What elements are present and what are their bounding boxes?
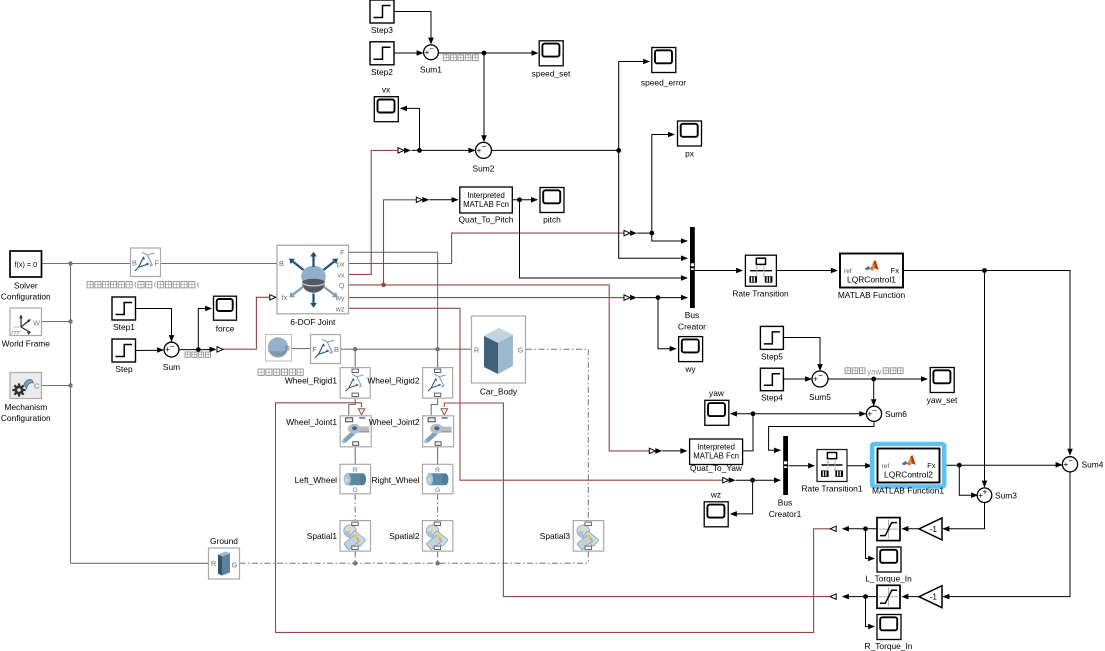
svg-text:Sum5: Sum5 (809, 392, 831, 402)
svg-text:Right_Wheel: Right_Wheel (372, 475, 420, 485)
svg-text:wz: wz (710, 490, 721, 500)
svg-text:Spatial2: Spatial2 (389, 531, 420, 541)
svg-text:Sum6: Sum6 (885, 409, 907, 419)
svg-text:−: − (170, 342, 175, 351)
svg-text:6-DOF Joint: 6-DOF Joint (290, 317, 336, 327)
svg-text:vx: vx (337, 270, 345, 279)
svg-text:Rate Transition1: Rate Transition1 (802, 484, 863, 494)
svg-text:force: force (216, 324, 235, 334)
svg-text:F: F (155, 259, 160, 268)
svg-text:−: − (1068, 457, 1073, 466)
svg-text:wy: wy (335, 294, 345, 303)
svg-text:Ground: Ground (210, 536, 238, 546)
svg-text:Spatial1: Spatial1 (307, 531, 338, 541)
svg-text:Step4: Step4 (761, 393, 783, 403)
svg-text:R: R (353, 467, 358, 474)
svg-text:px: px (337, 260, 345, 269)
svg-text:Creator1: Creator1 (769, 509, 802, 519)
svg-text:R_Torque_In: R_Torque_In (865, 641, 913, 651)
svg-text:Sum4: Sum4 (1082, 460, 1104, 470)
svg-text:−: − (429, 45, 434, 54)
svg-text:LQRControl1: LQRControl1 (847, 275, 896, 285)
svg-text:R: R (435, 467, 440, 474)
svg-text:-1: -1 (930, 593, 938, 602)
svg-text:Configuration: Configuration (1, 413, 51, 423)
svg-text:MATLAB Fcn: MATLAB Fcn (693, 452, 739, 461)
svg-text:L_Torque_In: L_Torque_In (865, 574, 912, 584)
svg-text:Q: Q (339, 281, 345, 290)
svg-text:R: R (285, 344, 290, 353)
svg-text:-1: -1 (930, 525, 938, 534)
svg-text:Solver: Solver (14, 281, 38, 291)
svg-text:Left_Wheel: Left_Wheel (295, 475, 338, 485)
svg-text:−: − (818, 371, 823, 380)
svg-text:wz: wz (335, 304, 345, 313)
svg-text:speed_error: speed_error (641, 78, 686, 88)
svg-text:Wheel_Joint1: Wheel_Joint1 (286, 417, 337, 427)
svg-text:Wheel_Rigid1: Wheel_Rigid1 (285, 376, 337, 386)
svg-text:W: W (33, 319, 41, 328)
svg-text:wy: wy (684, 364, 696, 374)
svg-text:F: F (340, 248, 345, 257)
svg-text:yaw: yaw (709, 388, 725, 398)
svg-text:fx: fx (282, 293, 288, 302)
svg-text:vx: vx (382, 85, 391, 95)
svg-text:G: G (435, 487, 440, 494)
svg-text:Step5: Step5 (761, 352, 783, 362)
svg-text:Bus: Bus (685, 310, 699, 320)
svg-text:World Frame: World Frame (2, 339, 51, 349)
svg-text:C: C (34, 382, 40, 391)
svg-text:Creator: Creator (678, 322, 706, 332)
svg-text:Interpreted: Interpreted (697, 443, 735, 452)
svg-text:px: px (685, 149, 695, 159)
svg-text:speed_set: speed_set (532, 69, 571, 79)
svg-text:−: − (482, 142, 487, 151)
svg-text:Bus: Bus (778, 498, 792, 508)
svg-text:yaw: yaw (867, 367, 881, 376)
svg-text:pitch: pitch (543, 215, 561, 225)
svg-text:F: F (312, 345, 317, 354)
svg-text:yaw_set: yaw_set (927, 395, 958, 405)
svg-text:Car_Body: Car_Body (480, 387, 518, 397)
svg-text:Wheel_Rigid2: Wheel_Rigid2 (367, 376, 419, 386)
svg-text:Wheel_Joint2: Wheel_Joint2 (369, 417, 420, 427)
svg-text:B: B (279, 259, 284, 268)
svg-text:Quat_To_Yaw: Quat_To_Yaw (690, 463, 743, 473)
svg-text:Step: Step (115, 364, 133, 374)
svg-text:Spatial3: Spatial3 (540, 531, 571, 541)
svg-text:Sum3: Sum3 (995, 491, 1017, 501)
svg-text:G: G (232, 560, 238, 569)
svg-text:Mechanism: Mechanism (4, 402, 47, 412)
svg-text:MATLAB Fcn: MATLAB Fcn (463, 200, 509, 209)
svg-text:Step2: Step2 (371, 67, 393, 77)
svg-text:−: − (872, 406, 877, 415)
svg-text:LQRControl2: LQRControl2 (884, 470, 933, 480)
svg-text:Sum2: Sum2 (473, 164, 495, 174)
svg-text:R: R (474, 345, 479, 354)
svg-text:R: R (211, 559, 216, 568)
svg-text:Step1: Step1 (113, 322, 135, 332)
svg-text:G: G (353, 487, 358, 494)
svg-text:G: G (518, 345, 524, 354)
svg-text:+: + (983, 488, 988, 497)
svg-text:f(x) = 0: f(x) = 0 (15, 260, 38, 269)
svg-text:MATLAB Function1: MATLAB Function1 (872, 486, 944, 496)
svg-text:MATLAB Function: MATLAB Function (838, 290, 906, 300)
svg-text:Sum: Sum (163, 362, 180, 372)
svg-text:Sum1: Sum1 (420, 65, 442, 75)
svg-text:Interpreted: Interpreted (467, 191, 505, 200)
svg-text:Step3: Step3 (371, 25, 393, 35)
svg-text:B: B (334, 345, 339, 354)
svg-text:Configuration: Configuration (1, 292, 51, 302)
svg-text:B: B (132, 259, 137, 268)
svg-text:Quat_To_Pitch: Quat_To_Pitch (459, 215, 514, 225)
svg-text:Rate Transition: Rate Transition (732, 289, 789, 299)
